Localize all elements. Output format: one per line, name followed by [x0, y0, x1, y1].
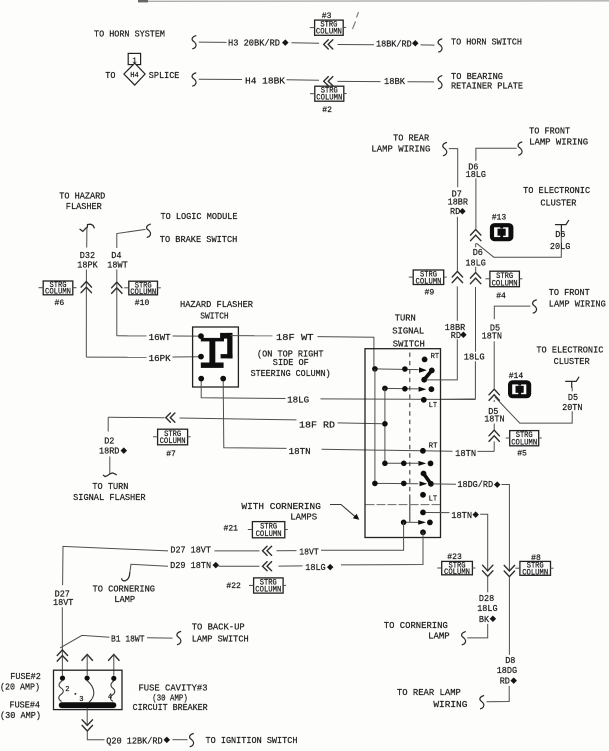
wire H4 segment left	[199, 78, 242, 80]
wire H4 segment right	[338, 80, 381, 82]
svg-text:20TN: 20TN	[562, 402, 582, 413]
svg-text:B1 18WT: B1 18WT	[111, 633, 145, 644]
wire D7 vertical mid	[456, 217, 458, 271]
fuse terminal dot 1	[60, 676, 65, 681]
svg-text:TO IGNITION SWITCH: TO IGNITION SWITCH	[206, 735, 298, 746]
splice marker diamond	[494, 481, 501, 488]
wire D6 vertical lower	[475, 287, 477, 352]
svg-text:LT: LT	[429, 402, 438, 410]
splice marker diamond on H3 label	[282, 39, 289, 46]
svg-text:18WT: 18WT	[107, 260, 128, 271]
switch internal wire cornering row	[404, 521, 419, 523]
svg-text:4: 4	[108, 693, 113, 701]
connector chevron (ignition feed)	[82, 720, 92, 731]
splice marker diamond	[459, 208, 466, 215]
wire 18BR RD into switch wiper	[426, 339, 457, 380]
wire D28 to cornering lamp	[467, 624, 487, 638]
wire 16PK to hazard switch	[173, 356, 199, 358]
connector chevron steering column #2	[324, 77, 333, 86]
svg-text:18F WT: 18F WT	[276, 332, 314, 343]
svg-text:WIRING: WIRING	[433, 699, 467, 710]
svg-text:(30 AMP): (30 AMP)	[0, 710, 41, 721]
wire D28 below connector	[487, 577, 489, 593]
switch internal wire row 3	[385, 462, 418, 464]
connector box STRG COLUMN #5	[506, 431, 542, 448]
connector chevron steering column #6	[81, 282, 91, 293]
svg-text:18LG: 18LG	[466, 169, 487, 180]
connector box STRG COLUMN #22	[249, 578, 286, 595]
wire 18TN across switch to RT contact	[322, 449, 453, 451]
svg-text:H4 18BK: H4 18BK	[245, 76, 285, 87]
svg-text:TO BACK-UP: TO BACK-UP	[192, 621, 245, 632]
contact dot B	[402, 366, 408, 372]
wire D27 vertical lower	[61, 607, 63, 675]
svg-text:COLUMN: COLUMN	[416, 279, 442, 287]
connector chevron (fuse feed)	[57, 650, 67, 661]
svg-text:RT: RT	[429, 443, 438, 451]
fuse block bus bar	[59, 702, 117, 708]
splice marker diamond	[412, 40, 419, 47]
splice marker diamond	[510, 677, 517, 684]
svg-text:18BK: 18BK	[384, 76, 405, 87]
svg-text:LAMPS: LAMPS	[290, 512, 317, 523]
svg-text:LT: LT	[429, 496, 438, 504]
wire D2 18RD stub	[107, 417, 109, 431]
arrow contact row 2	[419, 387, 427, 392]
wire D32 18PK vertical upper	[86, 228, 88, 248]
fuse terminal dot 3	[111, 676, 116, 681]
wire D27 to fuse block	[63, 546, 168, 585]
connector chevron steering column #21	[263, 546, 272, 555]
svg-text:COLUMN: COLUMN	[255, 587, 281, 595]
wire to horn switch	[421, 44, 435, 46]
wire D6 into switch LT contact	[441, 361, 475, 399]
wire D6 short segment	[475, 243, 477, 247]
contact dot A	[372, 366, 378, 372]
wire-end brace (to cornering lamp right)	[462, 632, 466, 645]
svg-text:RD: RD	[450, 206, 460, 217]
fuse cavity number 3	[74, 693, 76, 695]
wire D7 from rear lamp wiring	[449, 149, 458, 188]
wire Q20 corner	[87, 731, 104, 740]
contact dot I	[382, 461, 388, 467]
svg-text:18RD: 18RD	[99, 446, 120, 457]
svg-text:D8: D8	[505, 655, 515, 666]
wire D5 stub above connector #5	[493, 424, 495, 431]
svg-text:TO BRAKE SWITCH: TO BRAKE SWITCH	[160, 234, 238, 245]
svg-text:TO ELECTRONIC: TO ELECTRONIC	[523, 185, 590, 196]
wire branch to electronic cluster D5 20TN	[495, 387, 572, 423]
wire-end zigzag terminal (to hazard flasher)	[80, 224, 94, 231]
wire-end brace (to rear lamp wiring)	[443, 143, 447, 156]
wire 18F WT to turn signal switch	[318, 337, 374, 369]
svg-text:COLUMN: COLUMN	[130, 289, 156, 297]
wire 18VT mid	[277, 550, 297, 552]
contact dot row 3 end	[428, 461, 434, 467]
svg-text:TO FRONT: TO FRONT	[529, 126, 570, 137]
svg-text:COLUMN: COLUMN	[160, 438, 186, 446]
wire B1 to back-up lamp switch	[147, 637, 173, 639]
splice marker diamond	[472, 511, 479, 518]
switch internal wire row 4	[375, 482, 418, 484]
svg-text:H3 20BK/RD: H3 20BK/RD	[228, 38, 280, 49]
wire-end brace (to back-up lamp switch)	[177, 632, 181, 645]
svg-text:WITH CORNERING: WITH CORNERING	[241, 501, 321, 512]
fuse element 4	[110, 681, 114, 701]
connector chevron steering column #22	[263, 562, 272, 571]
svg-text:COLUMN: COLUMN	[316, 29, 342, 37]
wire 18DG/RD out of switch	[433, 483, 456, 485]
splice marker diamond	[490, 616, 497, 623]
svg-text:18VT: 18VT	[53, 597, 74, 608]
connector chevron (cluster branch 2)	[489, 389, 499, 400]
svg-text:18PK: 18PK	[77, 260, 98, 271]
svg-text:TO ELECTRONIC: TO ELECTRONIC	[536, 345, 603, 356]
splice symbol H4: diamond	[124, 63, 145, 85]
svg-text:#14: #14	[509, 371, 524, 381]
svg-text:SWITCH: SWITCH	[200, 310, 229, 321]
switch internal wire row 2	[385, 387, 419, 390]
svg-text:RT: RT	[431, 353, 440, 361]
svg-text:CLUSTER: CLUSTER	[540, 198, 576, 209]
wire 18F WT segment left	[231, 335, 273, 337]
svg-text:CLUSTER: CLUSTER	[554, 356, 590, 367]
svg-text:TO REAR LAMP: TO REAR LAMP	[397, 687, 461, 698]
svg-text:#23: #23	[447, 552, 462, 562]
svg-text:TO HORN SYSTEM: TO HORN SYSTEM	[94, 29, 165, 40]
svg-text:HAZARD FLASHER: HAZARD FLASHER	[180, 299, 253, 310]
svg-text:COLUMN: COLUMN	[511, 439, 537, 447]
fuse block arrow feed 2	[82, 654, 93, 660]
wire D27 mid	[215, 550, 260, 552]
wire H3 segment mid	[292, 42, 320, 45]
wire fuse feed 2	[86, 655, 88, 676]
contact dot K	[372, 481, 378, 487]
svg-text:LAMP SWITCH: LAMP SWITCH	[192, 633, 249, 644]
svg-text:16PK: 16PK	[149, 353, 171, 364]
wire 16WT to hazard switch	[173, 335, 199, 337]
wire to logic module / brake switch	[117, 229, 146, 248]
svg-text:TO TURN: TO TURN	[92, 481, 128, 492]
wire 16PK horizontal	[86, 356, 146, 358]
wiper LT lower	[424, 474, 431, 484]
contact dot N	[401, 520, 407, 526]
splice symbol H4: numbered tab	[128, 53, 140, 64]
svg-text:#2: #2	[322, 105, 332, 115]
svg-text:18TN: 18TN	[455, 448, 476, 459]
fuse terminal dot 2	[85, 676, 90, 681]
wire-end brace (to logic module / brake switch)	[147, 224, 151, 237]
svg-text:#22: #22	[226, 581, 241, 591]
switch internal stem A-K	[374, 369, 376, 484]
wire branch to electronic cluster D6 20LG	[476, 231, 561, 257]
svg-text:Q20 12BK/RD: Q20 12BK/RD	[106, 735, 163, 746]
wire 18F RD into switch junction	[338, 422, 385, 425]
svg-text:#6: #6	[55, 298, 65, 308]
hazard switch contact bars	[201, 338, 224, 342]
svg-text:SIDE OF: SIDE OF	[273, 357, 309, 368]
wire 16WT horizontal	[117, 335, 147, 337]
wire 18F RD horizontal	[108, 416, 164, 418]
connector chevron down #8	[504, 565, 514, 576]
wire D6 short segment 2	[475, 267, 477, 272]
svg-text:RD: RD	[500, 676, 510, 687]
wire-end brace (to bearing retainer plate)	[438, 76, 442, 89]
svg-text:RETAINER PLATE: RETAINER PLATE	[451, 81, 523, 92]
svg-text:COLUMN: COLUMN	[444, 569, 470, 577]
contact dot LT2	[420, 492, 426, 498]
wire-end brace (to front lamp wiring mid)	[533, 300, 537, 313]
wire D6 from front lamp wiring	[476, 148, 517, 161]
svg-text:COLUMN: COLUMN	[45, 289, 71, 297]
svg-text:TO LOGIC MODULE: TO LOGIC MODULE	[161, 211, 238, 222]
svg-text:18DG: 18DG	[497, 665, 518, 676]
wire Q20 from fuse block	[86, 708, 88, 726]
svg-text:18TN: 18TN	[289, 446, 311, 457]
wire 18TN cornering out of switch	[426, 512, 450, 514]
svg-text:COLUMN: COLUMN	[492, 280, 518, 288]
wire-end brace (to horn system)	[192, 36, 196, 49]
splice marker diamond	[327, 564, 334, 571]
connector icon #13	[490, 223, 514, 241]
svg-text:TO HORN SWITCH: TO HORN SWITCH	[451, 36, 522, 47]
wire 18DG/RD corner down	[502, 485, 510, 572]
svg-text:COLUMN: COLUMN	[316, 95, 342, 103]
connector box STRG COLUMN #8	[515, 561, 553, 577]
svg-text:#13: #13	[492, 213, 507, 223]
scan artifact: top edge line	[139, 0, 609, 2]
svg-text:16WT: 16WT	[149, 332, 171, 343]
svg-text:BK: BK	[479, 614, 489, 625]
arrow contact cornering row	[418, 520, 426, 525]
connector box STRG COLUMN #9	[409, 270, 447, 287]
hazard flasher switch S1 body	[193, 327, 239, 387]
connector chevron steering column #7	[166, 413, 175, 422]
fuse element 2	[59, 681, 63, 702]
splice marker diamond	[164, 737, 171, 744]
svg-text:LAMP: LAMP	[428, 631, 450, 642]
wire-end hook (to cornering lamp left)	[122, 573, 130, 581]
wire D5 stub below chevron	[493, 400, 495, 402]
svg-text:#7: #7	[166, 449, 176, 459]
wire D6 vertical	[475, 179, 477, 229]
splice marker diamond	[460, 332, 467, 339]
junction dot 18F RD	[382, 421, 388, 427]
svg-text:SIGNAL: SIGNAL	[392, 326, 424, 337]
connector chevron down #23	[483, 565, 493, 576]
svg-text:LAMP WIRING: LAMP WIRING	[371, 143, 430, 154]
svg-text:18LG: 18LG	[287, 394, 309, 405]
connector box STRG COLUMN #3	[310, 20, 346, 36]
wire D5 vertical	[493, 341, 495, 388]
connector icon #14	[508, 380, 531, 398]
arrow contact row 1	[419, 367, 427, 373]
connector chevron steering column #5	[489, 430, 499, 441]
switch internal wire row 1	[375, 368, 419, 371]
connector box STRG COLUMN #6	[39, 281, 77, 297]
wiper RT upper	[424, 370, 432, 379]
svg-text:#21: #21	[224, 524, 239, 534]
wire 18VT from switch (cornering)	[321, 522, 404, 550]
svg-text:18DG/RD: 18DG/RD	[457, 479, 493, 490]
connector box STRG COLUMN #7	[153, 429, 191, 446]
connector chevron steering column #10	[112, 282, 122, 293]
cluster terminal tick	[556, 220, 569, 231]
connector chevron steering column #9	[452, 271, 462, 282]
connector box STRG COLUMN #10	[124, 281, 161, 297]
wire D8 to rear lamp wiring	[487, 686, 510, 702]
wire D2 vertical to flasher	[109, 457, 111, 474]
svg-text:H4: H4	[130, 72, 139, 80]
svg-text:TO REAR: TO REAR	[393, 132, 429, 143]
contact dot cornering feed	[420, 510, 426, 516]
contact dot J	[401, 461, 407, 467]
contact dot L	[401, 481, 407, 487]
svg-text:TO CORNERING: TO CORNERING	[384, 620, 448, 631]
svg-text:RD: RD	[451, 330, 461, 341]
svg-text:18LG: 18LG	[465, 257, 486, 268]
svg-text:#4: #4	[496, 291, 506, 301]
svg-text:COLUMN: COLUMN	[256, 531, 282, 539]
svg-text:STEERING COLUMN): STEERING COLUMN)	[251, 368, 331, 379]
svg-text:18VT: 18VT	[299, 546, 319, 557]
wire D32 vertical lower	[85, 270, 87, 358]
svg-text:2: 2	[65, 686, 70, 694]
svg-text:D6: D6	[555, 229, 565, 240]
svg-text:LAMP WIRING: LAMP WIRING	[529, 136, 588, 147]
connector box STRG COLUMN #4	[485, 271, 522, 288]
svg-text:FUSE#2: FUSE#2	[10, 671, 41, 682]
svg-text:TO CORNERING: TO CORNERING	[93, 583, 156, 594]
svg-text:(20 AMP): (20 AMP)	[0, 682, 40, 693]
turn signal switch cornering section divider	[366, 504, 441, 506]
hazard switch terminal dot (16WT)	[198, 333, 204, 339]
svg-text:TO FRONT: TO FRONT	[549, 287, 590, 298]
svg-text:18BK/RD: 18BK/RD	[376, 38, 412, 49]
wire D8 below connector	[508, 577, 510, 655]
wire B1 branch diagonal	[60, 635, 109, 648]
wire D4 vertical lower	[116, 270, 118, 336]
svg-text:18LG: 18LG	[305, 562, 326, 573]
svg-text:TO HAZARD: TO HAZARD	[59, 190, 105, 201]
svg-text:#10: #10	[135, 298, 150, 308]
svg-text:20LG: 20LG	[550, 241, 571, 252]
arrow contact row 3	[418, 461, 426, 466]
wire D5 to 18TN corner	[493, 441, 495, 451]
connector box STRG COLUMN #23	[437, 561, 475, 577]
hazard switch terminal dot (to 18TN)	[220, 376, 226, 382]
svg-text:D29 18TN: D29 18TN	[170, 560, 211, 571]
connector chevron steering column #3	[324, 40, 333, 49]
splice marker diamond	[213, 562, 220, 569]
contact dot LT upper on 18LG wire	[421, 397, 427, 403]
wire-end brace (splice row)	[192, 73, 196, 86]
svg-text:SWITCH: SWITCH	[393, 338, 425, 349]
wire H4 segment mid	[287, 79, 320, 81]
svg-text:COLUMN: COLUMN	[522, 569, 548, 577]
contact dot O	[420, 529, 426, 535]
fuse block arrow feed 3	[109, 654, 120, 660]
svg-text:D27 18VT: D27 18VT	[170, 545, 211, 556]
hazard switch bracket contact	[220, 333, 232, 339]
svg-text:SPLICE: SPLICE	[149, 70, 180, 81]
wire-end brace (to rear lamp wiring bottom)	[480, 696, 484, 709]
svg-text:TURN: TURN	[395, 312, 416, 323]
turn signal switch dashed actuator line	[409, 353, 411, 495]
svg-text:SIGNAL FLASHER: SIGNAL FLASHER	[73, 492, 146, 503]
svg-text:LAMP: LAMP	[114, 594, 135, 605]
fuse element 3 (circuit breaker)	[87, 681, 94, 703]
svg-text:18TN: 18TN	[484, 414, 504, 425]
wire D29 mid	[219, 565, 260, 567]
contact dot E	[402, 386, 408, 392]
svg-text:18LG: 18LG	[464, 352, 485, 363]
wire-end brace (to ignition switch)	[190, 734, 194, 747]
connector box STRG COLUMN #2	[310, 86, 347, 103]
connector box STRG COLUMN #21	[248, 522, 288, 539]
svg-text:LAMP WIRING: LAMP WIRING	[549, 298, 606, 309]
wire 18TN to column connector #5	[478, 450, 495, 452]
hazard switch terminal dot (16PK)	[198, 354, 204, 360]
wire fuse feed 3	[113, 655, 115, 676]
svg-text:18TN: 18TN	[482, 331, 502, 342]
wire to bearing retainer plate	[408, 81, 435, 83]
svg-text:FLASHER: FLASHER	[66, 201, 102, 212]
wire 18LG from switch (cornering)	[341, 532, 423, 565]
wire 18F RD mid	[180, 418, 297, 420]
svg-text:#9: #9	[425, 288, 435, 298]
callout arrow to cornering section	[330, 505, 357, 518]
wire 18LG into turn signal switch LT contact and out right	[321, 398, 476, 401]
fuse block body	[54, 670, 123, 709]
wire H3 segment right	[338, 44, 375, 46]
wire D29 to cornering lamp	[130, 564, 168, 573]
arrow contact row 4	[420, 481, 428, 486]
scan artifact: slash marks	[353, 12, 359, 29]
wire 18LG mid	[279, 565, 303, 567]
connector chevron (cluster branch)	[471, 230, 481, 241]
wire 18TN from hazard switch	[223, 382, 286, 449]
wire-end brace (to horn switch)	[438, 39, 442, 52]
wire Q20 to ignition switch	[173, 739, 188, 741]
svg-text:18F RD: 18F RD	[299, 420, 335, 431]
svg-text:#5: #5	[517, 449, 527, 459]
wire 18LG from hazard switch	[201, 382, 285, 399]
switch internal stem D-I	[384, 388, 386, 463]
turn signal switch S2 body	[365, 349, 441, 538]
hazard switch terminal dot (to 18LG)	[198, 376, 204, 382]
contact dot D	[382, 386, 388, 392]
svg-text:TO: TO	[105, 70, 115, 81]
splice marker diamond on D2	[121, 447, 128, 454]
contact dot RT middle on 18TN wire	[420, 448, 426, 454]
wire-end brace (to front lamp wiring top)	[518, 142, 522, 155]
svg-text:18TN: 18TN	[451, 510, 472, 521]
wire H3 segment left	[199, 41, 227, 43]
cluster terminal tick 2	[566, 377, 579, 387]
wire D5 from front lamp wiring	[494, 306, 530, 319]
wire D7 vertical below connector	[456, 286, 458, 320]
connector chevron steering column #4	[470, 273, 480, 284]
contact dot F	[429, 386, 435, 392]
contact dot cornering row end	[427, 520, 433, 526]
contact dot RT upper	[422, 357, 428, 363]
wire-end zigzag terminal (to turn signal flasher)	[103, 473, 116, 477]
svg-text:CIRCUIT BREAKER: CIRCUIT BREAKER	[133, 702, 208, 713]
svg-text:18LG: 18LG	[477, 603, 498, 614]
turn signal switch actuator line solid lower	[409, 495, 411, 522]
wire 18TN corner down	[480, 514, 488, 571]
